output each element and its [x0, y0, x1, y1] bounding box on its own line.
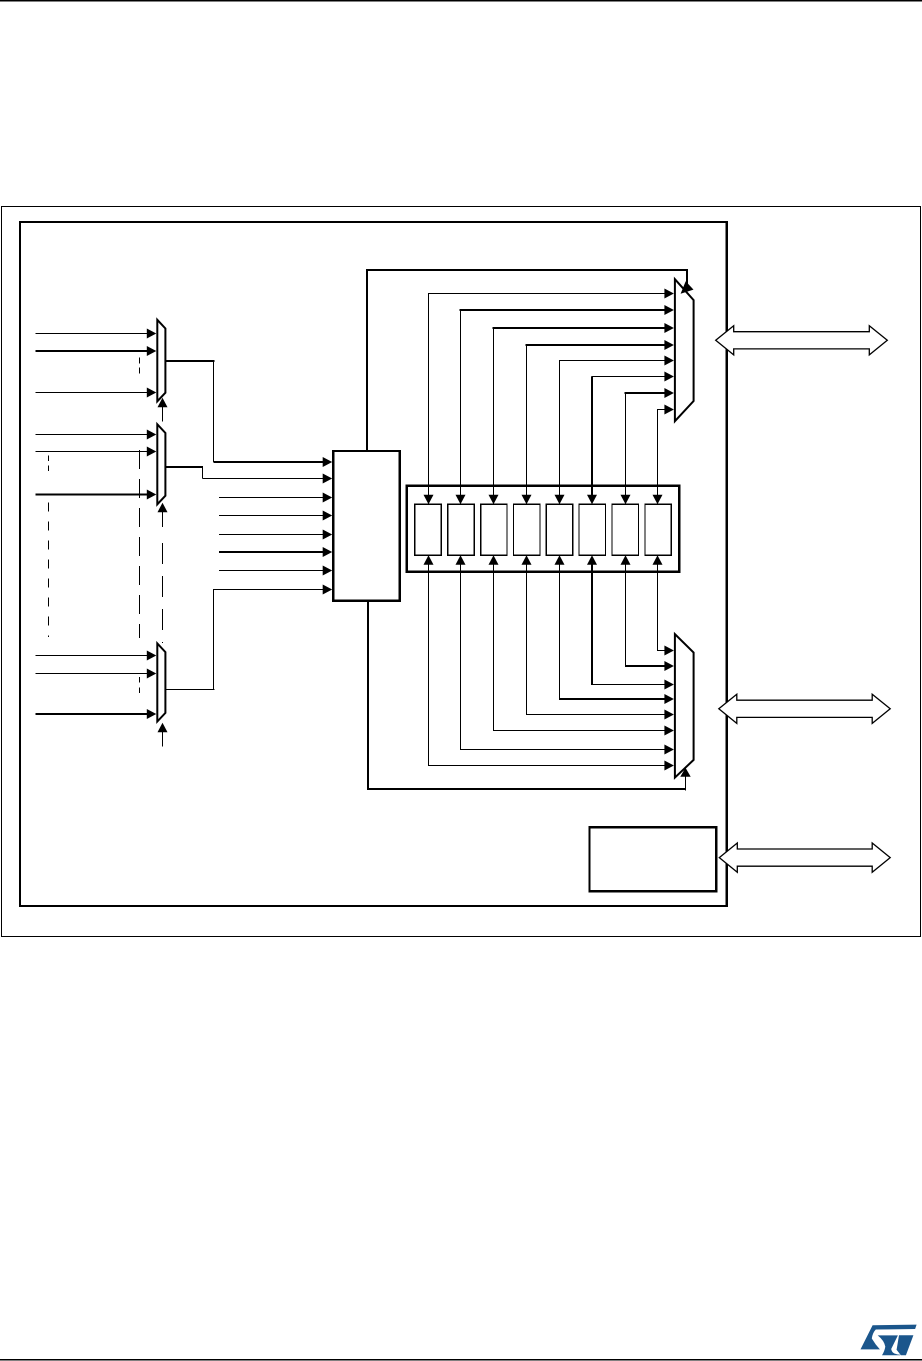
- wire stream 3 memory bus: [522, 340, 674, 504]
- wire arbiter request row 7: [219, 566, 332, 576]
- wire mux M3 output: [165, 589, 214, 690]
- wire stream 7 peripheral bus: [653, 555, 674, 655]
- wire stream 2 memory bus: [489, 323, 674, 504]
- wire stream 0 memory bus: [424, 289, 674, 505]
- request mux M3: [157, 643, 165, 721]
- wire dma_req input 3 to mux M3: [36, 709, 157, 719]
- request mux M2: [157, 424, 165, 504]
- dashed select line: [162, 543, 164, 643]
- DMA block boundary: [20, 222, 727, 906]
- wire stream 3 peripheral bus: [522, 555, 674, 719]
- wire arbiter top select stub: [366, 269, 368, 451]
- header rule: [0, 0, 922, 1]
- arbiter block: [333, 451, 399, 601]
- wire mux M1 output: [165, 361, 214, 462]
- AHB slave programming interface block: [590, 827, 717, 891]
- wire arbiter request row 6: [219, 547, 332, 557]
- wire mux M2 output: [165, 467, 203, 479]
- wire arbiter bottom select stub: [367, 601, 369, 790]
- peripheral port mux: [675, 634, 694, 778]
- wire arbiter request row 8: [214, 585, 333, 595]
- dashed request line B upper: [139, 358, 141, 374]
- memory port mux: [675, 279, 694, 421]
- wire arbiter request row 4: [219, 511, 332, 521]
- stream 0 FIFO: [415, 504, 441, 555]
- AHB master memory port bus arrow: [716, 326, 888, 355]
- wire dma_req input 1 to mux M1: [36, 329, 157, 339]
- wire dma_req input 1 to mux M2: [36, 430, 157, 440]
- dashed request line A upper: [48, 456, 50, 473]
- stream 4 FIFO: [546, 504, 572, 555]
- wire arbiter request row 2: [203, 474, 333, 484]
- wire stream 4 memory bus: [555, 356, 674, 505]
- dashed request line B lower: [139, 677, 141, 694]
- footer rule: [0, 1359, 922, 1361]
- wire stream select into mux M2: [158, 503, 168, 527]
- wire dma_req input 2 to mux M3: [36, 669, 157, 679]
- stream 3 FIFO: [514, 504, 540, 555]
- wire dma_req input 2 to mux M1: [36, 346, 157, 356]
- wire stream select into mux M1: [158, 398, 168, 422]
- wire arbiter request row 1: [214, 457, 333, 467]
- stream 6 FIFO: [612, 504, 638, 555]
- AHB master peripheral port bus arrow: [719, 694, 890, 723]
- wire stream 5 peripheral bus: [587, 555, 674, 689]
- stream 5 FIFO: [579, 504, 605, 555]
- wire select rise into peripheral mux: [680, 768, 690, 791]
- wire stream 7 memory bus: [653, 405, 674, 505]
- wire stream 1 memory bus: [456, 305, 674, 504]
- wire stream select into mux M3: [158, 723, 168, 747]
- request mux M1: [157, 320, 165, 402]
- wire stream 4 peripheral bus: [555, 555, 674, 704]
- stream 1 FIFO: [448, 504, 474, 555]
- wire select loop top horizontal: [366, 269, 688, 271]
- wire dma_req input 3 to mux M2: [36, 490, 157, 500]
- dashed request line A lower: [48, 502, 50, 637]
- FIFO block: [407, 486, 680, 572]
- stream 2 FIFO: [481, 504, 507, 555]
- wire select drop into memory mux: [681, 269, 694, 294]
- wire stream 5 memory bus: [587, 372, 674, 505]
- wire arbiter request row 3: [219, 493, 332, 503]
- wire dma_req input 1 to mux M3: [36, 651, 157, 661]
- wire stream 6 memory bus: [621, 388, 674, 504]
- dashed request line B middle: [139, 450, 141, 638]
- wire dma_req input 3 to mux M1: [36, 388, 157, 398]
- wire stream 6 peripheral bus: [621, 555, 674, 671]
- ST logo: [861, 1325, 917, 1356]
- wire stream 0 peripheral bus: [424, 555, 674, 770]
- wire stream 2 peripheral bus: [489, 555, 674, 735]
- stream 7 FIFO: [645, 504, 671, 555]
- wire arbiter request row 5: [219, 530, 332, 540]
- wire stream 1 peripheral bus: [456, 555, 674, 754]
- wire select loop bottom horizontal: [367, 788, 686, 790]
- AHB slave interface bus arrow: [719, 843, 890, 872]
- wire dma_req input 2 to mux M2: [36, 447, 157, 457]
- figure frame: [2, 207, 921, 937]
